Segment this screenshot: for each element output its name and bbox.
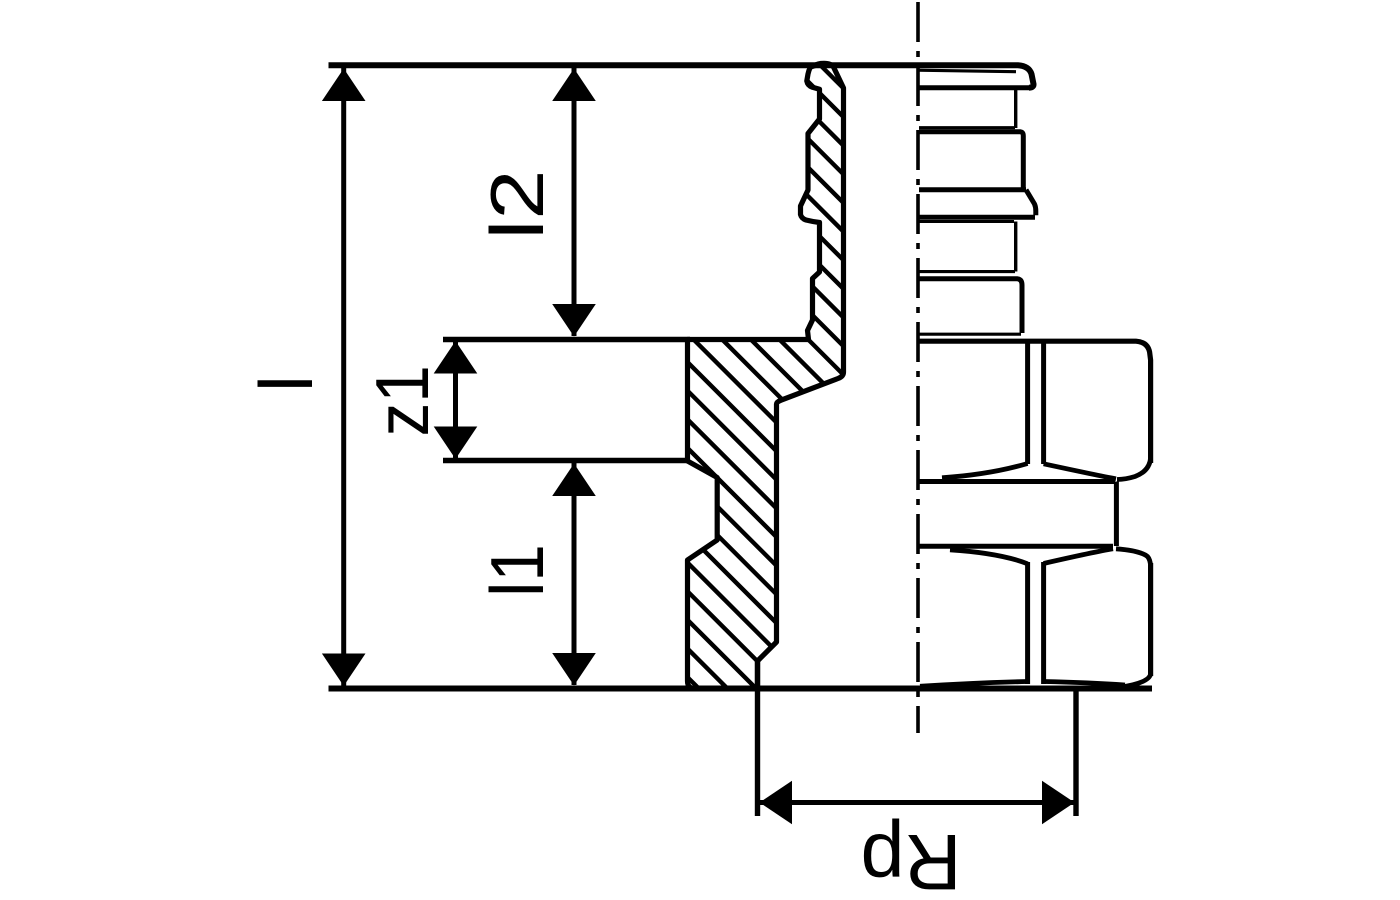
svg-text:Rp: Rp — [861, 818, 962, 900]
svg-text:l2: l2 — [475, 170, 559, 240]
svg-text:l1: l1 — [476, 544, 560, 597]
svg-text:l: l — [244, 375, 328, 392]
svg-text:z1: z1 — [361, 365, 445, 436]
